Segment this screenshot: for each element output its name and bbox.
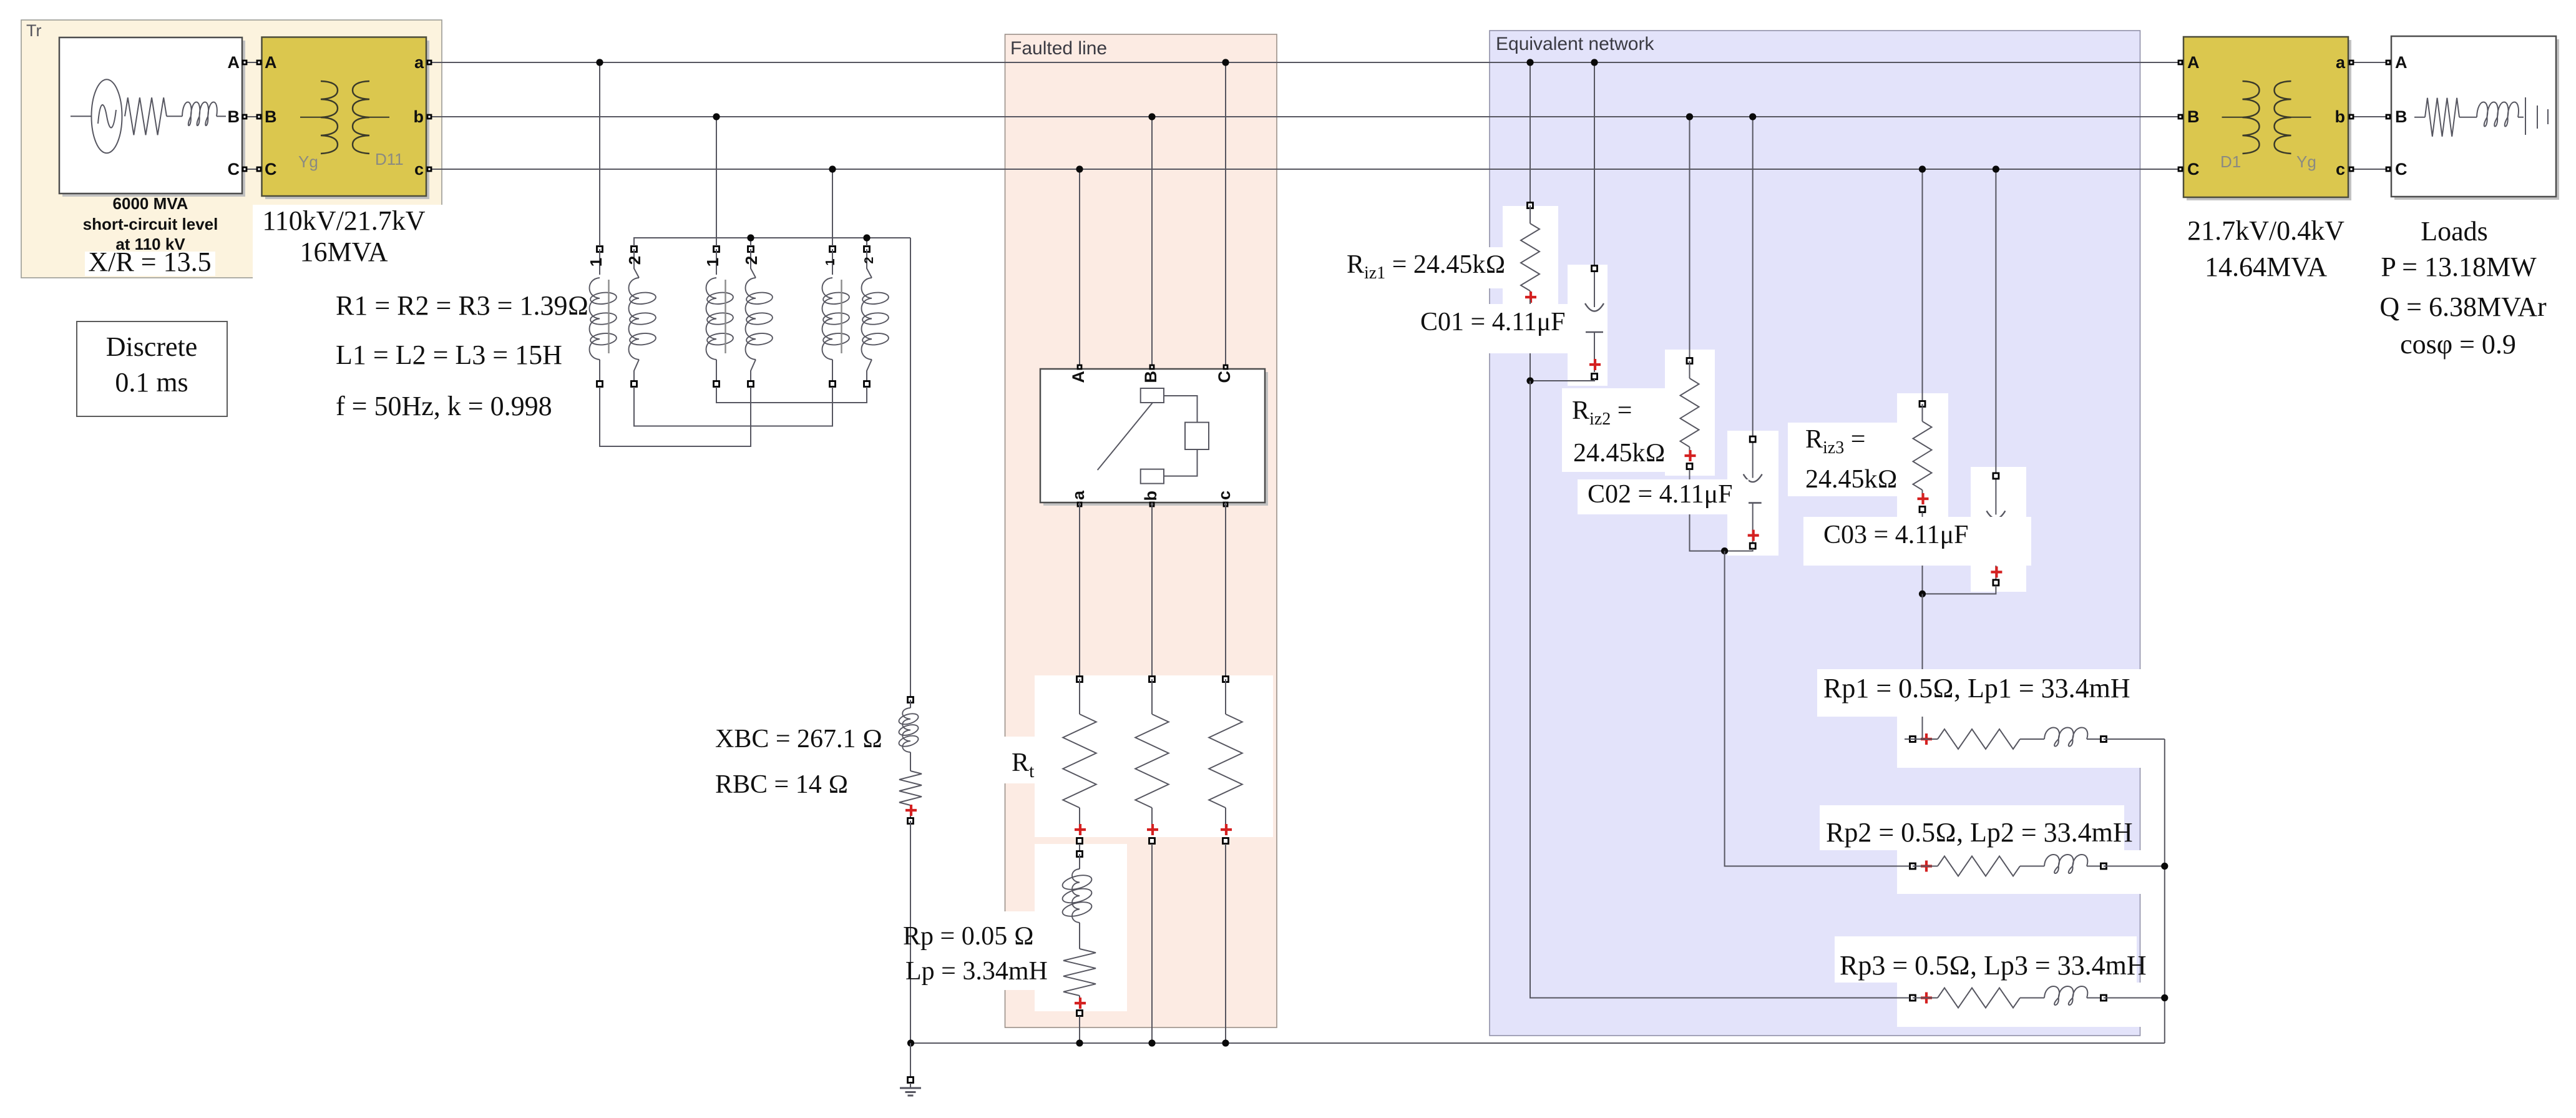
svg-text:A: A: [228, 53, 240, 72]
svg-text:XBC = 267.1 Ω: XBC = 267.1 Ω: [715, 725, 882, 753]
svg-text:16MVA: 16MVA: [300, 237, 388, 267]
label Riz1: [1347, 250, 1506, 283]
svg-text:R1 = R2 = R3 = 1.39Ω: R1 = R2 = R3 = 1.39Ω: [336, 290, 588, 321]
wire tap C to TZ3 winding1: [832, 169, 833, 246]
resistor Rp: [1063, 949, 1096, 1016]
svg-text:c: c: [1215, 491, 1234, 500]
wire C to Riz3: [1922, 169, 1923, 401]
label C01 patch: [1412, 304, 1571, 353]
zigzag transformer TZ1 core: [608, 280, 609, 353]
wire tap B to TZ2 winding1: [716, 117, 717, 246]
label RBC: [715, 770, 849, 799]
wire A to Riz1: [1529, 62, 1531, 202]
label C02 patch: [1578, 479, 1749, 514]
node junction J1: [1526, 377, 1533, 384]
svg-text:2: 2: [862, 257, 876, 263]
wire zigzag bottom link 3 (TZ2w1-TZ3w2): [716, 387, 867, 403]
node C C03: [1993, 165, 1999, 172]
wire B to C02: [1752, 117, 1754, 436]
svg-text:a: a: [1069, 490, 1088, 500]
wire fault tap B (phase B): [1151, 117, 1153, 366]
wire fault tap C (phase A): [1225, 62, 1226, 366]
svg-text:Faulted line: Faulted line: [1010, 38, 1107, 59]
fault port b: [1150, 503, 1154, 506]
resistor Rp3: [1905, 988, 2044, 1008]
svg-text:b: b: [1141, 491, 1160, 501]
svg-text:b: b: [2335, 107, 2346, 126]
svg-text:Rp2 = 0.5Ω, Lp2 = 33.4mH: Rp2 = 0.5Ω, Lp2 = 33.4mH: [1826, 817, 2133, 848]
node tap A TZ1: [596, 59, 603, 66]
source port A: [243, 61, 246, 64]
inductor Lp: [1061, 851, 1093, 949]
node tap C TZ3: [829, 165, 836, 172]
label source: [83, 194, 218, 277]
svg-text:a: a: [2336, 53, 2346, 72]
svg-text:B: B: [228, 107, 240, 126]
svg-text:C: C: [2187, 160, 2200, 179]
wire phase C bus: [247, 169, 2386, 170]
inductor Lp1: [2044, 727, 2107, 746]
wire right rail: [2164, 739, 2165, 1043]
label Rt: [1012, 748, 1035, 782]
svg-text:2: 2: [742, 256, 761, 265]
svg-text:Lp = 3.34mH: Lp = 3.34mH: [905, 957, 1048, 986]
svg-text:c: c: [414, 160, 424, 179]
svg-text:X/R = 13.5: X/R = 13.5: [88, 247, 211, 277]
node TZ3 winding2 link: [863, 234, 870, 241]
svg-text:14.64MVA: 14.64MVA: [2205, 252, 2327, 282]
label loads: [2379, 216, 2547, 360]
wire zigzag bottom link 1 (TZ1w1-TZ2w2): [600, 387, 751, 446]
source port B: [243, 115, 246, 119]
wire Riz2 to junction: [1690, 469, 1725, 551]
svg-text:0.1 ms: 0.1 ms: [115, 367, 188, 398]
zigzag transformer TZ1 winding 2: [625, 247, 656, 387]
node ground bus left end: [907, 1039, 914, 1046]
svg-text:Rp1 = 0.5Ω, Lp1 = 33.4mH: Rp1 = 0.5Ω, Lp1 = 33.4mH: [1823, 673, 2130, 704]
zigzag transformer TZ3 winding 2: [862, 247, 889, 387]
svg-text:f = 50Hz, k = 0.998: f = 50Hz, k = 0.998: [336, 391, 552, 421]
T1 port b out: [427, 115, 431, 119]
resistor Rp2: [1905, 856, 2044, 876]
label Rp3 patch: [1835, 936, 2147, 983]
wire C to C03: [1995, 169, 1996, 473]
svg-text:Equivalent network: Equivalent network: [1496, 34, 1654, 54]
wire J1 to Rp3: [1530, 381, 1910, 998]
wire Rt-B to ground bus: [1151, 844, 1153, 1043]
svg-text:a: a: [414, 53, 424, 72]
loads port C: [2386, 167, 2390, 171]
T2 port c out: [2349, 167, 2353, 171]
loads port A: [2386, 61, 2390, 64]
voltage source block 6000 MVA: [59, 37, 242, 194]
transformer T1 shadow: [265, 41, 429, 199]
label Rp Lp: [903, 922, 1048, 986]
zigzag transformer TZ2 core: [724, 280, 726, 353]
T2 port a out: [2349, 61, 2353, 64]
wire ground stub: [910, 1043, 911, 1077]
wire fault c to Rt: [1225, 503, 1226, 677]
svg-text:A: A: [2395, 53, 2408, 72]
zigzag transformer TZ1 winding 1: [587, 247, 617, 387]
label C03 patch: [1803, 517, 2031, 566]
wire C02 to junction: [1725, 549, 1753, 551]
label XBC: [715, 725, 882, 753]
svg-text:Q = 6.38MVAr: Q = 6.38MVAr: [2379, 292, 2547, 322]
transformer T1 110kV/21.7kV: [262, 37, 427, 197]
resistor Rt (phase A): [1063, 677, 1096, 844]
label T2: [2187, 215, 2344, 282]
svg-text:24.45kΩ: 24.45kΩ: [1805, 465, 1898, 494]
node fault tap C: [1222, 59, 1229, 66]
label Riz3: [1805, 425, 1865, 458]
svg-text:short-circuit level: short-circuit level: [83, 215, 218, 233]
transformer T2 shadow: [2187, 40, 2351, 200]
fault port a: [1078, 503, 1081, 506]
wire zigzag bottom link 2 (TZ1w2-TZ3w1): [634, 387, 832, 426]
T1 port a out: [427, 61, 431, 64]
zigzag transformer TZ2 winding 1: [703, 247, 734, 387]
wire ground bus: [911, 1042, 2165, 1044]
node rail Rp2: [2161, 863, 2168, 870]
loads block: [2391, 36, 2556, 197]
svg-text:Yg: Yg: [2296, 152, 2316, 171]
equivalent network region: [1490, 31, 2140, 1036]
svg-text:B: B: [265, 107, 277, 126]
T1 port B in: [257, 115, 261, 119]
loads port B: [2386, 115, 2390, 119]
resistor Riz2: [1681, 358, 1699, 469]
node TZ2 winding2 link: [747, 234, 754, 241]
faulted line region: [1005, 34, 1277, 1027]
node junction J2: [1721, 547, 1728, 554]
svg-text:RBC = 14 Ω: RBC = 14 Ω: [715, 770, 849, 799]
fault port C: [1224, 365, 1227, 369]
svg-text:Yg: Yg: [298, 152, 318, 171]
wire RBC to ground bus: [908, 818, 914, 1044]
fault port c: [1224, 503, 1227, 506]
node C Riz3: [1919, 165, 1926, 172]
node rail Rp3: [2161, 994, 2168, 1001]
svg-text:B: B: [2187, 107, 2200, 126]
wire B to Riz2: [1689, 117, 1690, 358]
fault block shadow: [1043, 372, 1268, 506]
svg-text:L1 = L2 = L3 = 15H: L1 = L2 = L3 = 15H: [336, 340, 562, 370]
svg-text:C: C: [265, 160, 277, 179]
node B C02: [1749, 113, 1756, 120]
wire J2 to Rp2: [1725, 551, 1910, 866]
T2 port B in: [2178, 115, 2182, 119]
wire phase B bus: [247, 116, 2386, 117]
label background patches: [85, 205, 2142, 1027]
svg-text:B: B: [1141, 371, 1160, 383]
svg-text:21.7kV/0.4kV: 21.7kV/0.4kV: [2187, 215, 2344, 246]
svg-text:Tr: Tr: [26, 21, 41, 40]
svg-text:A: A: [2187, 53, 2200, 72]
T2 port b out: [2349, 115, 2353, 119]
capacitor C01: [1585, 266, 1604, 380]
wire Riz1 to junction: [1529, 300, 1531, 381]
label T1: [262, 205, 425, 267]
ground: [900, 1077, 921, 1096]
wire J3 to Rp1: [1910, 594, 1923, 739]
zigzag transformer TZ3 core: [841, 280, 842, 353]
svg-text:C01 = 4.11μF: C01 = 4.11μF: [1420, 308, 1566, 336]
label Rp1 patch: [1817, 669, 2142, 717]
resistor Rp1: [1905, 729, 2044, 749]
wire Rp to ground bus: [1079, 1016, 1080, 1043]
svg-text:b: b: [414, 107, 424, 126]
svg-text:110kV/21.7kV: 110kV/21.7kV: [262, 205, 425, 236]
svg-text:A: A: [1069, 371, 1088, 383]
wire phase A bus: [247, 62, 2386, 63]
node fault tap A: [1076, 165, 1083, 172]
node fault B ground: [1148, 1039, 1155, 1046]
T2 port C in: [2178, 167, 2182, 171]
resistor Rt (phase B): [1135, 677, 1168, 844]
wire C01 to junction: [1530, 379, 1594, 381]
label Riz2: [1572, 396, 1632, 429]
svg-text:6000 MVA: 6000 MVA: [113, 194, 188, 213]
svg-text:C: C: [228, 160, 240, 179]
svg-text:R: R: [1012, 748, 1029, 777]
node A C01: [1591, 59, 1598, 66]
subsystem region Tr (source area): [21, 20, 442, 278]
svg-text:Loads: Loads: [2421, 216, 2488, 247]
svg-text:2: 2: [625, 256, 644, 265]
inductor Lp3: [2044, 986, 2107, 1005]
label R1: [336, 290, 588, 321]
wire fault b to Rt: [1151, 503, 1153, 677]
svg-text:24.45kΩ: 24.45kΩ: [1573, 439, 1666, 468]
inductor XBC: [898, 697, 920, 772]
wire tap A to TZ1 winding1: [599, 62, 600, 246]
transformer T2 21.7kV/0.4kV: [2183, 37, 2348, 197]
wire Lp2 to right rail: [2104, 866, 2165, 867]
node fault C ground: [1222, 1039, 1229, 1046]
fault port A: [1078, 365, 1081, 369]
resistor Rt (phase C): [1209, 677, 1242, 844]
resistor Riz1: [1521, 203, 1539, 303]
wire Lp1 to right rail: [2104, 738, 2165, 740]
node fault A ground: [1076, 1039, 1083, 1046]
svg-text:B: B: [2395, 107, 2408, 126]
svg-text:1: 1: [703, 258, 722, 267]
wire neutral down to XBC: [910, 238, 911, 697]
source port C: [243, 167, 246, 171]
T2 port A in: [2178, 61, 2182, 64]
svg-text:P = 13.18MW: P = 13.18MW: [2381, 252, 2537, 282]
inductor Lp2: [2044, 855, 2107, 873]
discrete solver block: [77, 321, 227, 416]
T1 port c out: [427, 167, 431, 171]
node B Riz2: [1686, 113, 1693, 120]
node RBC plus: [905, 805, 917, 816]
svg-text:1: 1: [587, 258, 605, 267]
wire winding-2 top link: [634, 238, 910, 246]
svg-text:C: C: [1215, 371, 1234, 383]
T1 port A in: [257, 61, 261, 64]
wire C03 to junction: [1923, 586, 1996, 594]
label Rp2 patch: [1820, 805, 2133, 850]
label Riz3 value: [1805, 465, 1898, 494]
svg-text:C: C: [2395, 160, 2408, 179]
wire fault a to Rt: [1079, 503, 1080, 677]
wire Rt-C to ground bus: [1225, 844, 1226, 1043]
T1 port C in: [257, 167, 261, 171]
three-phase fault block: [1040, 369, 1265, 503]
fault port B: [1150, 365, 1154, 369]
svg-text:C02 = 4.11μF: C02 = 4.11μF: [1588, 480, 1733, 509]
wire Lp3 to right rail: [2104, 998, 2165, 999]
svg-text:Rp3 = 0.5Ω, Lp3 = 33.4mH: Rp3 = 0.5Ω, Lp3 = 33.4mH: [1840, 950, 2147, 981]
svg-text:cosφ = 0.9: cosφ = 0.9: [2400, 329, 2516, 360]
loads block shadow: [2394, 39, 2559, 200]
source block shadow: [62, 41, 245, 197]
svg-text:Rp = 0.05 Ω: Rp = 0.05 Ω: [903, 922, 1034, 951]
resistor RBC: [899, 771, 922, 818]
node tap B TZ2: [713, 113, 720, 120]
capacitor C03: [1986, 473, 2005, 586]
label L1: [336, 340, 562, 370]
svg-text:1: 1: [824, 258, 837, 265]
node fault tap B: [1148, 113, 1155, 120]
svg-text:t: t: [1029, 761, 1035, 782]
svg-text:D1: D1: [2220, 152, 2241, 171]
node A Riz1: [1526, 59, 1533, 66]
wire A to C01: [1594, 62, 1595, 265]
svg-text:A: A: [265, 53, 277, 72]
resistor Riz3: [1913, 401, 1932, 512]
zigzag transformer TZ2 winding 2: [742, 247, 773, 387]
wire Rt-A to Lp: [1079, 844, 1080, 851]
capacitor C02: [1744, 436, 1762, 549]
svg-text:Discrete: Discrete: [106, 331, 198, 362]
zigzag transformer TZ3 winding 1: [822, 247, 850, 387]
wire Riz3 to junction: [1922, 512, 1923, 594]
label Riz2 value: [1573, 439, 1666, 468]
svg-text:D11: D11: [375, 150, 404, 169]
node junction J3: [1919, 591, 1926, 597]
wire fault tap A (phase C): [1079, 169, 1080, 366]
svg-text:c: c: [2336, 160, 2345, 179]
label f: [336, 391, 552, 421]
svg-text:C03 = 4.11μF: C03 = 4.11μF: [1823, 521, 1969, 549]
